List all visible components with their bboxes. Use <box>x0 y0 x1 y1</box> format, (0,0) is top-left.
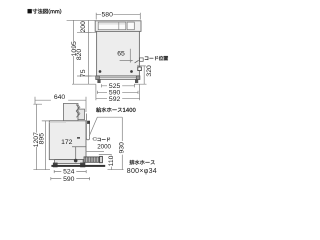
hose hanging at back <box>86 114 89 140</box>
dim 590 bottom <box>51 177 90 180</box>
cord leader dashes <box>135 58 144 63</box>
svg-text:640: 640 <box>54 94 66 101</box>
dim 640 <box>35 97 86 112</box>
dim line 1095 <box>73 20 75 84</box>
drain hose end cap <box>100 156 103 162</box>
drain hose <box>84 157 100 162</box>
svg-text:110: 110 <box>108 155 115 166</box>
svg-text:2000: 2000 <box>97 143 111 150</box>
side view: rear box <box>78 109 85 120</box>
dim 524 <box>54 170 86 173</box>
svg-text:320: 320 <box>146 65 153 77</box>
svg-text:580: 580 <box>102 11 114 18</box>
drain hose label haisui hose <box>129 160 154 165</box>
side view left bracket <box>33 104 50 170</box>
floor line <box>51 165 105 167</box>
rear foot <box>80 163 85 168</box>
dim 525 <box>102 84 135 87</box>
dim 320 <box>134 66 147 84</box>
base bar <box>96 76 140 80</box>
side view: backguard <box>63 104 78 121</box>
foot right rear view <box>135 79 138 83</box>
coiled supply hose <box>76 105 79 118</box>
svg-text:172: 172 <box>61 139 73 146</box>
washer main body (rear view) <box>97 31 140 76</box>
svg-text:75: 75 <box>80 69 87 77</box>
cord exit mark <box>87 121 90 124</box>
dim 592 <box>96 84 140 100</box>
left extension lines <box>67 20 97 84</box>
supply hose leader + 930 top tick <box>89 117 122 136</box>
foot left rear view <box>97 79 100 83</box>
cord position marker <box>138 67 142 71</box>
svg-text:592: 592 <box>109 96 121 103</box>
screw left <box>99 70 102 73</box>
cover inner recess left <box>98 22 126 30</box>
svg-text:800×φ34: 800×φ34 <box>127 168 157 175</box>
washer top cover (rear view) <box>95 21 141 32</box>
dim 930 <box>121 117 123 170</box>
svg-text:200: 200 <box>80 21 87 33</box>
supply hose label kyuusui hose 1400 <box>96 107 135 112</box>
dim 590 <box>97 91 138 94</box>
svg-text:930: 930 <box>119 142 126 154</box>
svg-text:895: 895 <box>38 133 45 145</box>
front foot <box>53 163 58 168</box>
side view main body <box>49 121 86 160</box>
svg-text:820: 820 <box>76 49 83 61</box>
base plinth side view <box>55 160 84 164</box>
screw right <box>130 70 133 73</box>
cord line <box>86 151 104 153</box>
title : sunpouzu (mm) <box>28 9 62 14</box>
dim 110 <box>99 155 124 170</box>
svg-text:65: 65 <box>117 50 125 57</box>
plug glyph <box>92 138 96 141</box>
cord label <box>97 138 110 142</box>
svg-text:590: 590 <box>63 176 75 183</box>
dim 580 <box>96 13 140 20</box>
svg-text:524: 524 <box>63 169 75 176</box>
cover inner recess right <box>127 22 134 30</box>
cord position label <box>145 56 168 60</box>
clip mark on side panel <box>77 137 80 139</box>
dim line 200/820/75 <box>88 20 90 84</box>
